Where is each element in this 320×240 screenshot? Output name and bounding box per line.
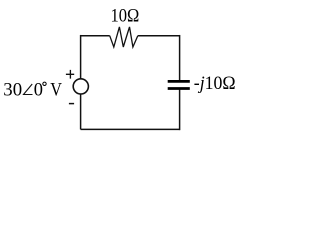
- wire bottom horizontal: [81, 128, 180, 130]
- voltage source polarity plus: [66, 70, 74, 79]
- svg-text:-j10Ω: -j10Ω: [194, 74, 236, 94]
- resistor zigzag: [110, 27, 138, 47]
- svg-text:0: 0: [34, 81, 43, 101]
- voltage source circle: [73, 79, 88, 94]
- phasor angle symbol: [24, 84, 33, 95]
- wire left vertical upper segment: [80, 35, 82, 78]
- wire right vertical lower segment: [179, 90, 181, 131]
- svg-text:30: 30: [3, 81, 22, 101]
- wire left vertical lower segment: [80, 95, 82, 130]
- svg-text:V: V: [50, 81, 62, 101]
- wire top-left horizontal segment: [81, 35, 110, 37]
- wire top-right horizontal segment: [138, 35, 180, 37]
- capacitor bottom plate: [168, 87, 190, 90]
- voltage source polarity minus: [69, 103, 74, 105]
- wire right vertical upper segment: [179, 35, 181, 80]
- degree symbol: [43, 82, 46, 85]
- svg-text:10Ω: 10Ω: [111, 6, 140, 26]
- capacitor top plate: [168, 80, 190, 83]
